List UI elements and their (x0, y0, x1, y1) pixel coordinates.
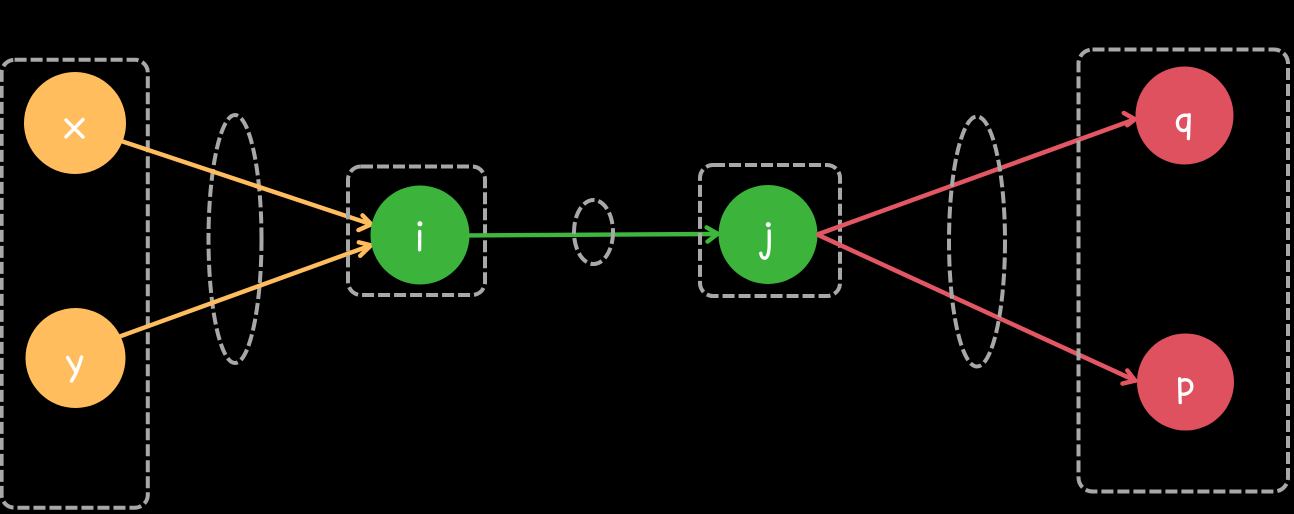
label q (1177, 115, 1189, 139)
box around i (348, 167, 485, 296)
arrow j to p (819, 235, 1135, 383)
arrow i to j (469, 227, 718, 241)
output group box (1079, 50, 1289, 492)
label i (417, 221, 422, 250)
node p (1137, 334, 1234, 431)
lens ellipse left (209, 115, 262, 363)
node j (719, 185, 818, 284)
node q (1136, 67, 1234, 165)
middle small ellipse (574, 200, 613, 264)
node y (26, 308, 126, 408)
arrow x to i (121, 141, 372, 230)
label x (66, 120, 83, 138)
node x (24, 72, 126, 174)
label p (1180, 379, 1192, 403)
label y (68, 357, 82, 381)
arrow y to i (121, 242, 372, 336)
node i (371, 186, 470, 285)
input group box (2, 60, 148, 508)
lens ellipse right (949, 117, 1005, 367)
label j (761, 222, 771, 258)
arrow j to q (819, 113, 1135, 234)
box around j (700, 165, 840, 296)
